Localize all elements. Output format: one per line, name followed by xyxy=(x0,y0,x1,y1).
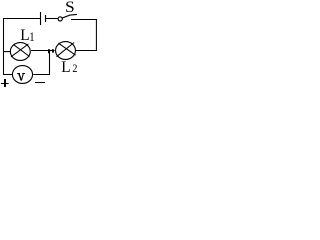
svg-text:L: L xyxy=(61,59,70,76)
battery short plate (-) xyxy=(45,15,47,22)
voltmeter body xyxy=(12,66,32,84)
lamp L1 cross stroke / xyxy=(11,44,28,57)
svg-text:S: S xyxy=(65,0,75,16)
switch S pivot contact circle xyxy=(58,17,62,21)
lamp L2 cross stroke / xyxy=(57,43,75,57)
svg-text:1: 1 xyxy=(29,30,34,44)
wire: branch vertical (junction down to voltmeter corner) xyxy=(49,51,51,76)
wire: right border xyxy=(95,19,97,51)
wire: left border xyxy=(3,18,5,75)
wire: battery to switch xyxy=(45,18,58,20)
junction dot B xyxy=(52,49,54,53)
switch S blade (open) xyxy=(62,14,77,18)
wire: voltmeter to branch corner xyxy=(33,74,50,76)
polarity plus sign xyxy=(4,79,6,87)
wire: left border to lamp L1 xyxy=(4,51,11,53)
wire: lamp L2 to right border xyxy=(76,50,97,52)
battery long plate (+) xyxy=(40,12,42,25)
junction dot A xyxy=(48,49,50,54)
lamp L2 bulb xyxy=(56,42,76,60)
wire: lamp L1 to lamp L2 xyxy=(31,50,55,52)
voltmeter V letter xyxy=(17,73,25,81)
lamp L2 cross stroke \ xyxy=(58,43,75,55)
lamp L1 cross stroke \ xyxy=(13,44,29,56)
wire: top side left segment xyxy=(3,18,40,20)
polarity minus sign xyxy=(35,82,45,83)
wire: bottom left (border to voltmeter) xyxy=(3,74,13,76)
svg-text:L: L xyxy=(20,27,29,44)
wire: switch to top-right corner xyxy=(71,19,97,21)
lamp L1 bulb xyxy=(10,43,30,61)
svg-text:2: 2 xyxy=(72,64,77,76)
